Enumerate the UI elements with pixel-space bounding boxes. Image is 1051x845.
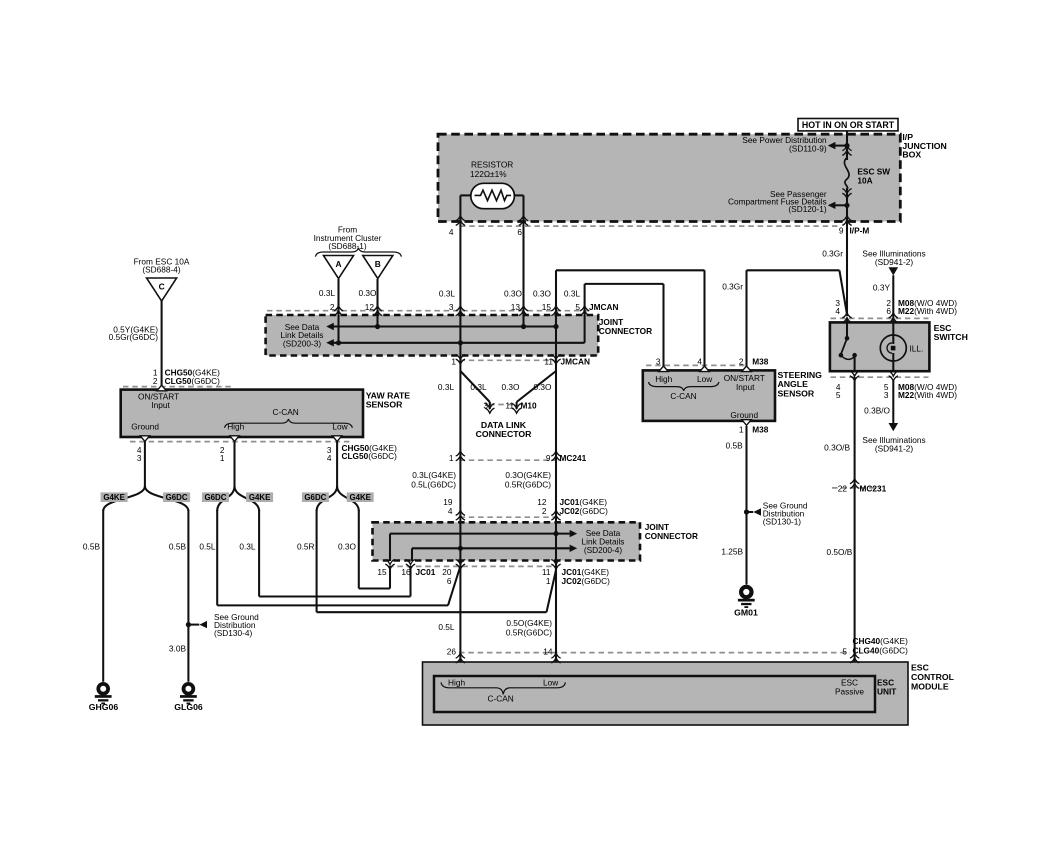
svg-text:4: 4 xyxy=(835,306,840,316)
svg-text:SENSOR: SENSOR xyxy=(366,400,403,410)
svg-text:15: 15 xyxy=(542,302,552,312)
svg-text:0.3O: 0.3O xyxy=(533,289,552,299)
svg-text:(SD130-1): (SD130-1) xyxy=(763,516,802,526)
svg-text:Low: Low xyxy=(697,374,713,384)
svg-text:(SD110-9): (SD110-9) xyxy=(789,144,827,154)
svg-text:1: 1 xyxy=(449,453,454,463)
svg-text:1.25B: 1.25B xyxy=(721,546,743,556)
svg-text:26: 26 xyxy=(447,646,457,656)
svg-text:5: 5 xyxy=(836,390,841,400)
svg-text:13: 13 xyxy=(511,302,521,312)
svg-text:JC01: JC01 xyxy=(416,567,436,577)
svg-text:0.3L: 0.3L xyxy=(319,288,336,298)
svg-text:0.3O: 0.3O xyxy=(504,289,523,299)
svg-text:0.5R(G6DC): 0.5R(G6DC) xyxy=(506,627,552,637)
svg-text:122Ω±1%: 122Ω±1% xyxy=(470,169,507,179)
svg-text:CONNECTOR: CONNECTOR xyxy=(476,429,533,439)
svg-text:C-CAN: C-CAN xyxy=(488,693,514,703)
svg-text:0.3L: 0.3L xyxy=(239,542,256,552)
svg-text:CLG40(G6DC): CLG40(G6DC) xyxy=(853,646,909,656)
svg-text:10A: 10A xyxy=(857,175,872,185)
svg-text:0.3Gr: 0.3Gr xyxy=(722,281,743,291)
svg-text:M38: M38 xyxy=(752,425,769,435)
svg-text:M10: M10 xyxy=(521,400,538,410)
svg-text:0.3L: 0.3L xyxy=(564,289,581,299)
svg-text:JMCAN: JMCAN xyxy=(561,356,591,366)
svg-text:MC241: MC241 xyxy=(560,453,587,463)
svg-text:M22(With 4WD): M22(With 4WD) xyxy=(898,390,957,400)
svg-text:2: 2 xyxy=(153,376,158,386)
svg-text:12: 12 xyxy=(365,302,375,312)
svg-text:6: 6 xyxy=(447,576,452,586)
svg-text:3: 3 xyxy=(137,453,142,463)
svg-text:0.5L: 0.5L xyxy=(199,542,216,552)
svg-text:0.5R(G6DC): 0.5R(G6DC) xyxy=(505,479,551,489)
svg-text:G6DC: G6DC xyxy=(166,493,188,502)
svg-text:3: 3 xyxy=(656,356,661,366)
svg-text:0.5B: 0.5B xyxy=(83,542,101,552)
svg-text:(SD941-2): (SD941-2) xyxy=(875,257,914,267)
svg-text:6: 6 xyxy=(517,227,522,237)
svg-text:5: 5 xyxy=(842,646,847,656)
svg-text:0.5L(G6DC): 0.5L(G6DC) xyxy=(411,479,456,489)
svg-text:Low: Low xyxy=(332,421,348,431)
svg-text:4: 4 xyxy=(448,506,453,516)
svg-text:HOT IN ON OR START: HOT IN ON OR START xyxy=(802,120,895,130)
svg-text:0.5B: 0.5B xyxy=(726,440,744,450)
svg-text:G6DC: G6DC xyxy=(205,493,227,502)
svg-text:RESISTOR: RESISTOR xyxy=(471,160,513,170)
svg-text:0.5B: 0.5B xyxy=(169,542,187,552)
svg-text:2: 2 xyxy=(542,506,547,516)
svg-text:CONNECTOR: CONNECTOR xyxy=(599,326,652,336)
svg-text:0.3L: 0.3L xyxy=(470,382,487,392)
svg-text:CLG50(G6DC): CLG50(G6DC) xyxy=(342,451,398,461)
svg-text:0.3Gr: 0.3Gr xyxy=(822,249,843,259)
svg-text:1: 1 xyxy=(546,576,551,586)
svg-text:0.5R: 0.5R xyxy=(297,542,315,552)
svg-text:5: 5 xyxy=(575,302,580,312)
svg-text:High: High xyxy=(655,374,672,384)
svg-text:C-CAN: C-CAN xyxy=(273,407,299,417)
svg-text:16: 16 xyxy=(401,567,411,577)
svg-text:Passive: Passive xyxy=(835,687,864,697)
svg-text:0.3B/O: 0.3B/O xyxy=(864,405,890,415)
svg-text:0.5O/B: 0.5O/B xyxy=(826,547,852,557)
svg-text:Ground: Ground xyxy=(131,421,159,431)
svg-text:(SD200-3): (SD200-3) xyxy=(283,339,322,349)
svg-text:JC02(G6DC): JC02(G6DC) xyxy=(560,506,609,516)
svg-text:B: B xyxy=(375,259,381,269)
svg-text:C: C xyxy=(159,282,165,292)
svg-text:BOX: BOX xyxy=(902,150,921,160)
svg-text:6: 6 xyxy=(886,306,891,316)
svg-text:ILL.: ILL. xyxy=(910,344,924,354)
svg-text:Input: Input xyxy=(151,400,170,410)
svg-text:A: A xyxy=(335,259,341,269)
svg-text:CONNECTOR: CONNECTOR xyxy=(645,531,698,541)
svg-text:0.3Y: 0.3Y xyxy=(873,282,891,292)
svg-text:0.3O: 0.3O xyxy=(534,382,553,392)
svg-text:14: 14 xyxy=(543,646,553,656)
svg-text:SWITCH: SWITCH xyxy=(934,332,968,342)
svg-text:(SD130-4): (SD130-4) xyxy=(214,628,253,638)
svg-text:0.3O: 0.3O xyxy=(359,288,378,298)
svg-text:GHG06: GHG06 xyxy=(89,702,119,712)
svg-text:11: 11 xyxy=(544,356,553,366)
svg-text:CHG40(G4KE): CHG40(G4KE) xyxy=(853,636,909,646)
svg-text:I/P-M: I/P-M xyxy=(850,225,870,235)
svg-text:JC02(G6DC): JC02(G6DC) xyxy=(562,576,611,586)
svg-text:1: 1 xyxy=(739,425,744,435)
svg-text:15: 15 xyxy=(377,567,387,577)
svg-text:SENSOR: SENSOR xyxy=(778,389,815,399)
svg-text:2: 2 xyxy=(330,302,335,312)
svg-text:3: 3 xyxy=(449,302,454,312)
svg-text:JMCAN: JMCAN xyxy=(589,302,619,312)
svg-text:M22(With 4WD): M22(With 4WD) xyxy=(898,306,957,316)
svg-text:Input: Input xyxy=(736,382,755,392)
svg-text:(SD688-4): (SD688-4) xyxy=(142,265,181,275)
svg-text:3: 3 xyxy=(884,390,889,400)
svg-text:0.3L: 0.3L xyxy=(439,289,456,299)
svg-text:GM01: GM01 xyxy=(734,607,758,617)
svg-text:GLG06: GLG06 xyxy=(174,702,203,712)
svg-text:(SD200-4): (SD200-4) xyxy=(584,545,623,555)
svg-text:4: 4 xyxy=(449,227,454,237)
svg-text:(SD120-1): (SD120-1) xyxy=(788,204,827,214)
svg-text:0.3O: 0.3O xyxy=(502,382,521,392)
svg-text:C-CAN: C-CAN xyxy=(670,391,696,401)
svg-text:Ground: Ground xyxy=(730,410,758,420)
svg-text:G4KE: G4KE xyxy=(349,493,371,502)
svg-text:9: 9 xyxy=(546,453,551,463)
svg-text:UNIT: UNIT xyxy=(877,687,896,697)
svg-text:4: 4 xyxy=(327,453,332,463)
svg-text:G6DC: G6DC xyxy=(304,493,326,502)
svg-text:9: 9 xyxy=(839,225,844,235)
svg-text:0.5Gr(G6DC): 0.5Gr(G6DC) xyxy=(109,332,159,342)
svg-text:3: 3 xyxy=(483,400,488,410)
svg-text:3.0B: 3.0B xyxy=(169,644,187,654)
svg-text:High: High xyxy=(227,421,244,431)
svg-text:MC231: MC231 xyxy=(860,483,887,493)
svg-text:(SD688-1): (SD688-1) xyxy=(328,241,367,251)
svg-text:22: 22 xyxy=(838,483,848,493)
svg-text:(SD941-2): (SD941-2) xyxy=(875,443,914,453)
svg-text:G4KE: G4KE xyxy=(249,493,271,502)
svg-text:0.3L: 0.3L xyxy=(438,382,455,392)
svg-text:11: 11 xyxy=(505,400,514,410)
svg-text:MODULE: MODULE xyxy=(911,681,949,691)
svg-text:Low: Low xyxy=(543,678,559,688)
svg-text:M38: M38 xyxy=(752,356,769,366)
svg-text:2: 2 xyxy=(739,356,744,366)
svg-text:0.3O: 0.3O xyxy=(338,542,357,552)
svg-text:1: 1 xyxy=(220,453,225,463)
svg-text:4: 4 xyxy=(697,356,702,366)
svg-text:CLG50(G6DC): CLG50(G6DC) xyxy=(165,376,221,386)
svg-text:0.5L: 0.5L xyxy=(438,622,455,632)
svg-text:1: 1 xyxy=(451,356,456,366)
svg-text:G4KE: G4KE xyxy=(103,493,125,502)
svg-text:High: High xyxy=(448,678,465,688)
svg-text:0.3O/B: 0.3O/B xyxy=(824,442,850,452)
